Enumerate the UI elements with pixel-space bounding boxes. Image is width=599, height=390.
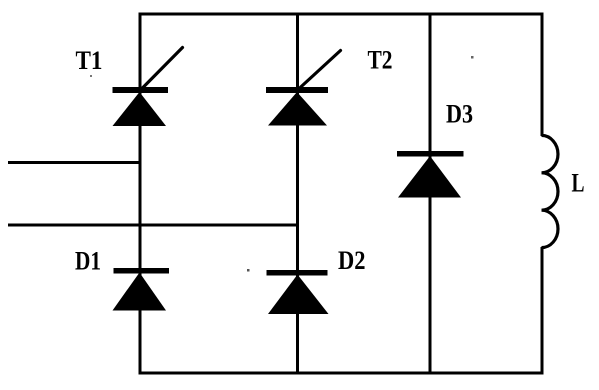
wire bottom bus [139,372,544,375]
wire ac input lower [8,224,298,227]
wire middle branch [296,14,299,373]
stray dot right of top area [471,56,474,59]
diode D1 [113,268,170,311]
stray dot near T1 label [90,75,92,77]
wire right branch upper [541,14,544,136]
wire D3 branch [429,14,432,373]
wire ac input upper [8,161,140,164]
thyristor T2 [266,51,341,126]
diode D3 [397,151,464,198]
svg-text:D3: D3 [446,100,473,129]
wire right branch lower [541,247,544,373]
svg-text:D2: D2 [338,246,366,275]
svg-text:D1: D1 [75,247,101,276]
stray dot left of D2 [247,269,250,272]
svg-text:L: L [572,168,585,197]
inductor L [542,135,559,247]
wire left branch [139,14,142,373]
svg-text:T2: T2 [368,46,393,75]
thyristor T1 [113,48,183,127]
svg-text:T1: T1 [76,46,103,75]
wire top bus [139,13,544,16]
diode D2 [267,270,329,314]
